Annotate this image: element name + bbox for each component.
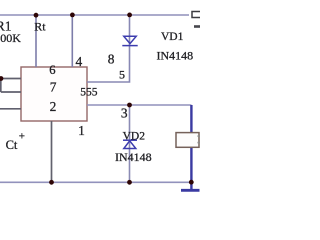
ground symbol	[181, 189, 200, 192]
node dot pin3 / VD2	[127, 103, 132, 108]
resistor R2 (cut off at top right)	[192, 12, 202, 18]
diode VD1 symbol	[122, 36, 137, 45]
svg-text:2: 2	[50, 99, 57, 114]
node dot top rail / VD1	[127, 13, 132, 18]
capacitor plate (cut off, top right)	[194, 25, 201, 28]
wire bottom ground rail	[0, 181, 191, 183]
svg-text:1: 1	[78, 123, 85, 138]
node dot pin6 wire	[0, 76, 3, 81]
svg-text:7: 7	[50, 79, 57, 94]
relay J1 label fragment	[198, 135, 201, 137]
wire VCC top rail	[0, 14, 189, 16]
wire VD2 branch	[129, 105, 131, 182]
relay J1 label fragment 2	[198, 142, 201, 144]
wire jumper pin6-pin7	[0, 79, 2, 93]
svg-text:3: 3	[121, 106, 128, 121]
svg-text:6: 6	[49, 63, 55, 77]
wire Rt vertical	[35, 15, 37, 67]
wire right vertical to relay and ground	[190, 105, 192, 190]
relay J1 coil box	[176, 133, 199, 148]
node dot bottom rail / VD2	[127, 180, 132, 185]
svg-text:Ct: Ct	[6, 138, 18, 152]
wire pin 4	[71, 15, 73, 67]
wire pin 1 ground	[51, 121, 53, 182]
wire VD1 branch to pin 5	[87, 15, 130, 82]
wire pin 2	[0, 108, 21, 110]
wire pin 6	[0, 78, 21, 80]
svg-text:Rt: Rt	[34, 19, 46, 33]
svg-text:555: 555	[80, 86, 98, 98]
svg-text:VD2: VD2	[123, 131, 146, 143]
svg-text:8: 8	[108, 52, 115, 67]
wire pin 7	[1, 91, 21, 93]
node dot bottom rail / pin1	[49, 180, 54, 185]
op-amp U1 555 IC box	[21, 67, 87, 121]
svg-text:+: +	[19, 131, 25, 143]
diode VD2 symbol	[123, 140, 137, 148]
svg-text:IN4148: IN4148	[115, 150, 152, 164]
node dot top rail / Rt	[34, 13, 39, 18]
svg-text:IN4148: IN4148	[157, 49, 194, 63]
svg-text:00K: 00K	[0, 31, 21, 45]
node dot bottom rail / right vertical	[189, 180, 194, 185]
svg-text:5: 5	[119, 68, 125, 82]
svg-text:4: 4	[76, 54, 83, 69]
wire pin 3	[87, 104, 191, 106]
svg-text:VD1: VD1	[161, 31, 184, 43]
node dot top rail / pin4	[70, 13, 75, 18]
